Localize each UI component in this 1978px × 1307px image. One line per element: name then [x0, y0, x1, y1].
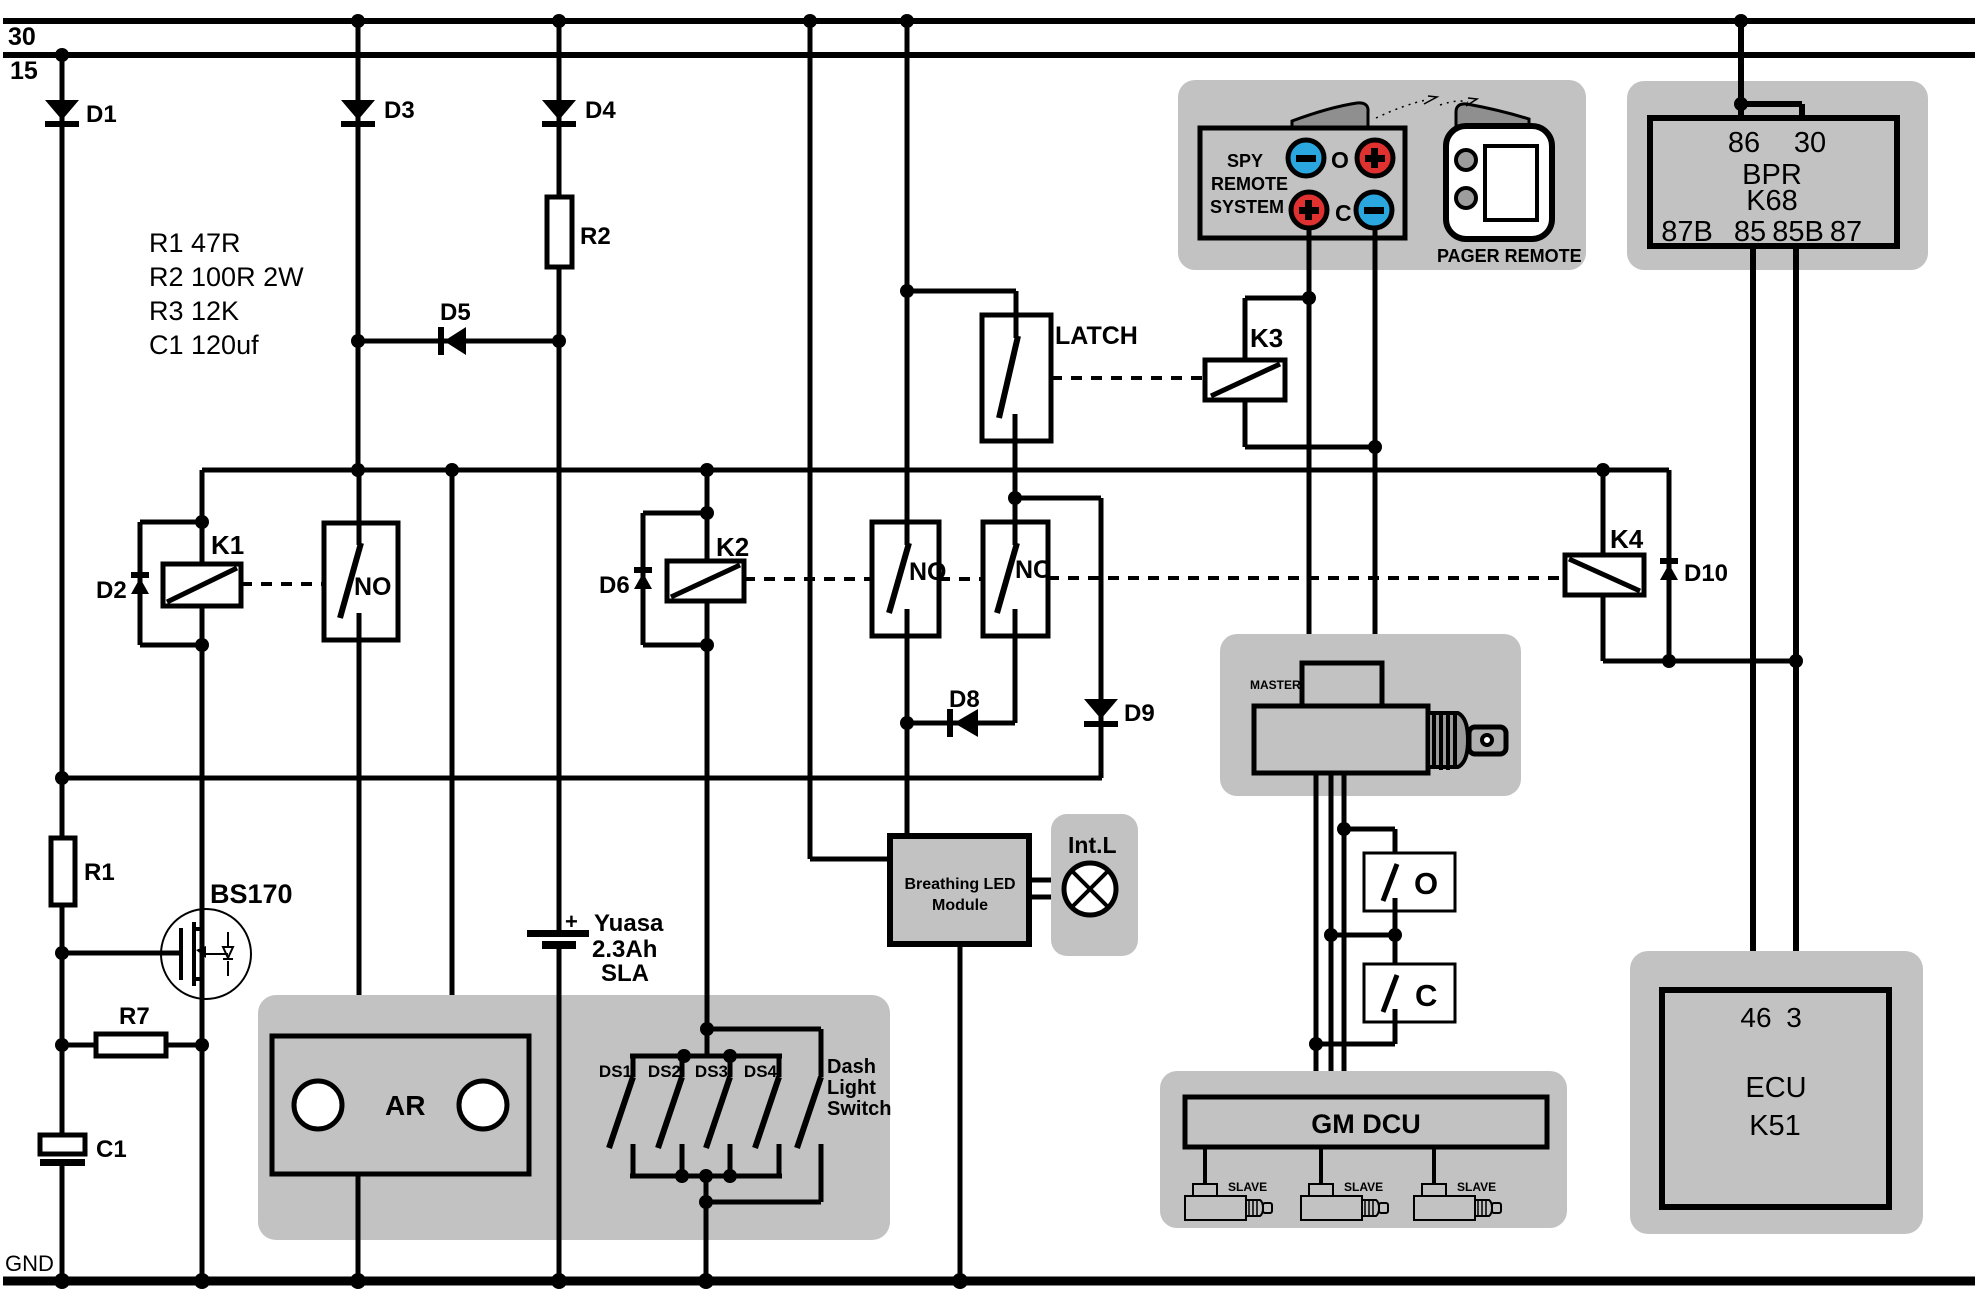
module BPR panel: [1627, 81, 1928, 270]
bus2 horizontal: [55, 771, 1102, 785]
node bus1-K4: [1596, 463, 1610, 477]
svg-text:R1: R1: [84, 859, 115, 886]
wire D4 branch: [552, 14, 566, 197]
wire rail30 to BPR: [1734, 14, 1802, 118]
wire battery drop: [557, 341, 562, 930]
button C-plus (red): [1291, 192, 1327, 228]
wire SPY C-plus to master: [1307, 228, 1312, 663]
svg-text:D9: D9: [1124, 700, 1155, 727]
svg-text:AR: AR: [385, 1090, 425, 1121]
transistor Q1 BS170: [55, 879, 293, 999]
wire D3 branch: [351, 14, 365, 470]
svg-text:C: C: [1415, 978, 1437, 1013]
svg-text:C1: C1: [96, 1136, 127, 1163]
diode D5: [438, 299, 471, 355]
svg-text:3: 3: [1786, 1002, 1802, 1033]
module ECU panel: [1630, 951, 1923, 1234]
wire module feed from rail30: [803, 14, 890, 859]
wire rail30 to K2-NO: [900, 14, 914, 545]
svg-text:30: 30: [8, 23, 36, 51]
actuator slave 1: [1185, 1147, 1272, 1220]
svg-text:D4: D4: [585, 97, 616, 124]
resistor R7: [55, 1003, 209, 1056]
button C-minus (blue): [1356, 192, 1392, 228]
wire SPY C-minus to master: [1373, 228, 1378, 663]
ground bus GND: [3, 1251, 1975, 1281]
svg-text:R3 12K: R3 12K: [149, 296, 239, 326]
module AR: [272, 1036, 529, 1174]
rail 30: [3, 21, 1975, 51]
diode D10: [1660, 558, 1728, 587]
node GND-battery: [551, 1273, 567, 1289]
svg-text:O: O: [1414, 866, 1438, 901]
svg-text:Dash: Dash: [827, 1056, 876, 1078]
svg-text:DS1: DS1: [599, 1062, 632, 1081]
wire module to lamp: [1029, 880, 1066, 897]
svg-text:87B: 87B: [1661, 216, 1713, 248]
node O branch: [1337, 822, 1351, 836]
battery BT1 Yuasa: [527, 909, 664, 1281]
svg-text:15: 15: [10, 57, 38, 85]
bus1 horizontal: [202, 468, 1669, 473]
box ECU K51: [1662, 990, 1889, 1207]
node GND-left: [54, 1273, 70, 1289]
wire bus1 left drop to K1: [200, 470, 205, 522]
wire net15 left vertical: [55, 48, 69, 838]
switch DS2: [648, 1056, 682, 1176]
svg-text:Breathing LED: Breathing LED: [904, 876, 1015, 893]
switch NO (K2): [872, 522, 947, 636]
module Breathing LED: [890, 836, 1029, 944]
diode D6 with bracket: [599, 513, 707, 645]
diode D3: [341, 97, 415, 127]
wire D5 link: [351, 334, 566, 348]
svg-text:NO: NO: [909, 558, 947, 586]
resistor R2: [547, 197, 611, 267]
wire K2 vertical: [700, 470, 714, 1056]
svg-text:2.3Ah: 2.3Ah: [592, 936, 657, 963]
button O-plus (red): [1357, 140, 1393, 176]
node bus1-K2: [700, 463, 714, 477]
svg-text:30: 30: [1794, 127, 1826, 159]
svg-text:NO: NO: [354, 573, 392, 601]
svg-text:K68: K68: [1746, 185, 1798, 217]
switch DS1: [599, 1056, 633, 1176]
box SPY REMOTE SYSTEM: [1200, 128, 1405, 238]
relay coil K4: [1565, 470, 1796, 668]
svg-text:BS170: BS170: [210, 879, 293, 909]
svg-text:Int.L: Int.L: [1068, 832, 1117, 858]
rail 15: [3, 55, 1975, 85]
svg-text:R2 100R 2W: R2 100R 2W: [149, 262, 304, 292]
svg-text:+: +: [565, 909, 578, 934]
switch C: [1364, 935, 1455, 1044]
wire R2 to D5 node: [557, 267, 562, 341]
svg-text:K4: K4: [1610, 524, 1644, 554]
svg-text:Light: Light: [827, 1077, 876, 1099]
svg-text:D2: D2: [96, 577, 127, 604]
module MASTER actuator panel: [1220, 634, 1521, 796]
box GM DCU: [1185, 1097, 1547, 1147]
diode D1: [45, 100, 117, 128]
svg-text:85: 85: [1734, 216, 1766, 248]
pager remote unit: [1437, 126, 1582, 266]
wire D8 link: [907, 721, 1015, 726]
module GM DCU panel: [1160, 1071, 1567, 1228]
switch LATCH: [982, 315, 1138, 441]
wire bus1 right drop D10: [1667, 470, 1672, 661]
diode D9: [1084, 699, 1155, 727]
node bus1-AR: [445, 463, 459, 477]
svg-text:ECU: ECU: [1745, 1072, 1806, 1104]
svg-text:R2: R2: [580, 223, 611, 250]
value table R1 R2 R3 C1: [149, 228, 304, 360]
node GND-module: [952, 1273, 968, 1289]
switch DS4: [744, 1056, 779, 1176]
module SPY remote system panel: [1178, 80, 1586, 270]
svg-text:PAGER REMOTE: PAGER REMOTE: [1437, 246, 1582, 266]
node GND-dash: [698, 1273, 714, 1289]
wire O branch: [1344, 829, 1395, 866]
svg-text:SYSTEM: SYSTEM: [1210, 197, 1284, 217]
wire LATCH branch: [907, 291, 1016, 315]
wire NO(K2) down to module: [900, 636, 914, 836]
actuator slave 2: [1301, 1147, 1388, 1220]
svg-text:MASTER: MASTER: [1250, 678, 1301, 692]
svg-text:D5: D5: [440, 299, 471, 326]
AR and dash switch grey panel: [258, 995, 890, 1240]
svg-text:K3: K3: [1250, 323, 1283, 353]
svg-text:SPY: SPY: [1227, 151, 1263, 171]
wire D9 branch: [1015, 498, 1101, 778]
svg-text:SLAVE: SLAVE: [1344, 1180, 1383, 1194]
wire master lead middle: [1329, 773, 1334, 1097]
actuator master: [1254, 663, 1506, 773]
wire NO(K1) to AR: [357, 640, 362, 1036]
wire master lead left: [1314, 773, 1319, 1097]
svg-text:SLAVE: SLAVE: [1457, 1180, 1496, 1194]
diode D2 with bracket: [96, 522, 202, 645]
svg-text:REMOTE: REMOTE: [1211, 174, 1288, 194]
node GND-BS170: [194, 1273, 210, 1289]
svg-text:87: 87: [1830, 216, 1862, 248]
wire bus1 to AR right: [450, 470, 455, 1036]
svg-text:D8: D8: [949, 686, 980, 713]
switch NO (K1): [324, 470, 398, 640]
dashed link K2 to K4: [744, 578, 1565, 579]
wire O to middle lead: [1324, 928, 1402, 942]
svg-text:DS2: DS2: [648, 1062, 681, 1081]
svg-text:C1 120uf: C1 120uf: [149, 330, 259, 360]
lamp Int.L: [1051, 814, 1138, 956]
svg-text:O: O: [1331, 147, 1349, 173]
svg-text:DS3: DS3: [695, 1062, 728, 1081]
svg-text:K1: K1: [211, 530, 244, 560]
diode D8: [947, 686, 980, 737]
wire AR to GND: [356, 1174, 361, 1281]
relay coil K3 with bracket: [1205, 291, 1382, 454]
svg-text:Module: Module: [932, 897, 988, 914]
node bus1-D3: [351, 463, 365, 477]
dashed link LATCH to K3: [1051, 376, 1205, 380]
wire C to left lead: [1309, 1037, 1395, 1051]
diode D4: [542, 97, 616, 127]
wire BPR-85B to ECU-3: [1789, 246, 1803, 990]
radio wave squiggle: [1376, 96, 1477, 118]
wire R1 to C1: [60, 905, 65, 1135]
node GND-AR: [350, 1273, 366, 1289]
svg-text:SLAVE: SLAVE: [1228, 1180, 1267, 1194]
switch DS3: [695, 1056, 730, 1176]
svg-text:46: 46: [1740, 1002, 1771, 1033]
dashed link K1 to NO: [241, 582, 324, 586]
svg-text:R1 47R: R1 47R: [149, 228, 241, 258]
antenna flap SPY: [1292, 103, 1368, 127]
svg-text:C: C: [1335, 200, 1352, 226]
dash light switch network: [630, 1029, 821, 1281]
svg-text:GM DCU: GM DCU: [1311, 1109, 1421, 1139]
relay coil K1: [163, 530, 244, 606]
wire module to GND: [958, 944, 963, 1281]
svg-text:SLA: SLA: [601, 960, 649, 987]
switch O: [1364, 853, 1455, 935]
svg-text:D3: D3: [384, 97, 415, 124]
svg-text:D1: D1: [86, 101, 117, 128]
button O-minus (blue): [1288, 140, 1324, 176]
wire master lead right: [1342, 773, 1347, 1097]
svg-text:LATCH: LATCH: [1055, 322, 1138, 350]
svg-text:86: 86: [1728, 127, 1760, 159]
actuator slave 3: [1414, 1147, 1501, 1220]
svg-text:GND: GND: [5, 1251, 54, 1276]
svg-text:DS4: DS4: [744, 1062, 778, 1081]
svg-text:K2: K2: [716, 532, 749, 562]
relay BPR K68: [1650, 118, 1897, 248]
relay coil K2: [667, 532, 749, 601]
svg-text:Switch: Switch: [827, 1098, 891, 1120]
wire NC to D8: [1013, 636, 1018, 723]
svg-text:K51: K51: [1749, 1110, 1801, 1142]
capacitor C1: [40, 1135, 127, 1280]
svg-text:R7: R7: [119, 1003, 150, 1030]
svg-text:D10: D10: [1684, 560, 1728, 587]
wire LATCH to NC: [1008, 441, 1022, 522]
wire K1 vertical: [195, 515, 209, 1280]
svg-text:D6: D6: [599, 572, 630, 599]
svg-text:85B: 85B: [1772, 216, 1824, 248]
svg-text:NC: NC: [1015, 556, 1051, 584]
label Dash Light Switch: [827, 1056, 891, 1120]
switch NC (K2): [983, 522, 1051, 636]
svg-text:Yuasa: Yuasa: [594, 910, 664, 937]
wire BPR-85 to ECU-46: [1750, 246, 1756, 990]
resistor R1: [51, 838, 115, 905]
antenna flap pager: [1456, 104, 1529, 126]
